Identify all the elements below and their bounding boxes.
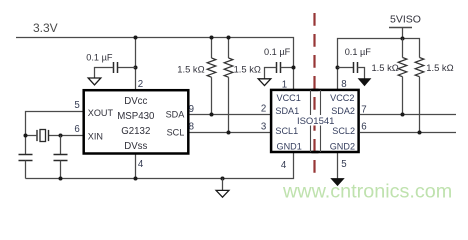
wire C4 to ground — [265, 68, 277, 79]
svg-text:SDA: SDA — [166, 109, 186, 119]
svg-text:GND2: GND2 — [330, 141, 355, 151]
svg-text:XOUT: XOUT — [88, 108, 114, 118]
junction node cap C1 to DVcc wire — [134, 66, 138, 70]
wire C2 to ground rail — [25, 161, 27, 179]
svg-text:VCC2: VCC2 — [330, 93, 354, 103]
crystal Y1 — [48, 130, 50, 141]
svg-text:8: 8 — [341, 79, 346, 90]
junction node ground symbol — [221, 177, 225, 181]
junction node R4 on SCL2 — [418, 131, 422, 135]
junction node R3 on SDA2 — [401, 113, 405, 117]
ground (filled, isolated side) GND2 — [331, 179, 343, 186]
svg-text:0.1 µF: 0.1 µF — [86, 53, 113, 63]
wire DVss pin 4 stub — [135, 155, 137, 179]
net 5VISO bar — [389, 27, 412, 29]
svg-text:XIN: XIN — [88, 132, 103, 142]
wire XIN pin 6 to crystal — [49, 135, 83, 137]
svg-text:4: 4 — [138, 159, 144, 170]
svg-text:1: 1 — [282, 80, 287, 91]
svg-text:5: 5 — [74, 100, 79, 111]
IC U2 ISO1541 package box — [271, 90, 359, 152]
junction node C5 on VCC2 line — [336, 66, 340, 70]
isolation channel inner wall left — [310, 90, 312, 152]
svg-text:ISO1541: ISO1541 — [297, 116, 335, 127]
wire SDA net (MSP430 pin 9 to ISO1541 pin 2) — [190, 114, 271, 116]
capacitor C5 0.1uF at VCC2 — [353, 62, 355, 73]
junction node R2 top — [227, 36, 231, 40]
ground (open) at C4 — [258, 79, 271, 86]
svg-text:1.5 kΩ: 1.5 kΩ — [234, 64, 261, 75]
resistor R3 1.5k (SDA2 pull-up) — [402, 39, 404, 58]
svg-text:VCC1: VCC1 — [277, 93, 301, 103]
svg-text:5: 5 — [341, 159, 346, 170]
svg-text:1.5 kΩ: 1.5 kΩ — [177, 64, 204, 75]
ground rail wire (bottom) — [26, 153, 294, 179]
svg-text:DVcc: DVcc — [124, 96, 147, 107]
svg-text:MSP430: MSP430 — [117, 111, 155, 122]
svg-text:DVss: DVss — [124, 141, 147, 152]
wire C3 to ground rail — [60, 161, 62, 179]
svg-text:G2132: G2132 — [121, 126, 150, 137]
wire VCC2 rail — [338, 39, 420, 90]
svg-text:7: 7 — [361, 105, 366, 116]
svg-text:0.1 µF: 0.1 µF — [345, 47, 372, 57]
junction node R1 on SDA — [210, 113, 214, 117]
capacitor C4 0.1uF at VCC1 — [276, 62, 278, 73]
ground (open) on ground rail — [222, 179, 224, 191]
net 3.3V rail wire — [16, 38, 294, 90]
svg-text:1.5 kΩ: 1.5 kΩ — [371, 62, 398, 73]
ground (filled, isolated side) at C5 — [359, 79, 371, 86]
junction node crystal right — [59, 134, 63, 138]
svg-text:GND1: GND1 — [277, 141, 302, 151]
wire cap C1 to DVcc line — [118, 67, 136, 69]
chip border patch over barrier (bottom) — [312, 151, 319, 154]
wire C4 to VCC1 line — [281, 67, 294, 69]
wire SDA2 net — [360, 114, 456, 116]
svg-text:www.cntronics.com: www.cntronics.com — [282, 181, 452, 203]
junction node C4 on VCC1 line — [292, 66, 296, 70]
svg-text:SDA2: SDA2 — [331, 106, 355, 116]
junction node 5VISO on rail — [401, 37, 405, 41]
wire crystal left to XOUT branch — [26, 135, 38, 137]
wire crystal right branch down — [60, 136, 62, 155]
wire SCL2 net — [360, 132, 456, 134]
svg-text:2: 2 — [261, 104, 266, 115]
svg-text:3.3V: 3.3V — [33, 21, 58, 35]
wire 5VISO stem — [402, 28, 404, 39]
resistor R1 1.5k (SDA pull-up) — [211, 38, 213, 59]
isolation barrier red dashed line — [313, 13, 315, 175]
svg-text:2: 2 — [138, 79, 143, 90]
wire DVcc branch (pin 2) — [135, 38, 137, 91]
junction node DVss on ground rail — [134, 177, 138, 181]
svg-text:6: 6 — [361, 122, 366, 133]
junction node C3 on ground rail — [59, 177, 63, 181]
svg-text:9: 9 — [189, 104, 194, 115]
wire C5 to VCC2 line — [338, 67, 354, 69]
isolation channel inner wall right — [320, 90, 322, 152]
svg-text:1.5 kΩ: 1.5 kΩ — [426, 62, 453, 73]
svg-text:0.1 µF: 0.1 µF — [264, 47, 291, 57]
resistor R4 1.5k (SCL2 pull-up) — [415, 58, 424, 77]
capacitor C2 (left load cap) — [19, 154, 33, 156]
wire SCL net (MSP430 pin 8 to ISO1541 pin 3) — [190, 132, 271, 134]
junction node on rail at DVcc branch — [134, 36, 138, 40]
wire GND2 pin 5 stub — [337, 153, 339, 179]
svg-text:8: 8 — [189, 121, 194, 132]
wire C5 to iso ground — [358, 68, 365, 79]
wire cap C1 to ground — [95, 68, 114, 79]
svg-text:SDA1: SDA1 — [275, 106, 299, 116]
label ISO1541 (with white backing) — [296, 115, 336, 126]
ground (open) at C1 — [88, 78, 101, 85]
svg-text:SCL2: SCL2 — [332, 126, 355, 136]
capacitor C1 0.1uF plates — [113, 62, 115, 73]
wire XOUT pin 5 to crystal net — [26, 112, 83, 155]
junction node crystal left — [24, 134, 28, 138]
svg-text:SCL1: SCL1 — [275, 126, 298, 136]
IC U1 MSP430G2132 package box — [84, 90, 189, 153]
svg-text:4: 4 — [281, 160, 287, 171]
svg-text:5VISO: 5VISO — [390, 14, 421, 26]
svg-text:SCL: SCL — [167, 127, 185, 137]
junction node R1 top — [210, 36, 214, 40]
capacitor C3 (right load cap) — [54, 154, 68, 156]
svg-text:6: 6 — [74, 124, 79, 135]
junction node R2 on SCL — [227, 131, 231, 135]
resistor R2 1.5k (SCL pull-up) — [228, 38, 230, 59]
svg-text:3: 3 — [261, 121, 266, 132]
chip border patch over barrier (top) — [312, 89, 319, 92]
